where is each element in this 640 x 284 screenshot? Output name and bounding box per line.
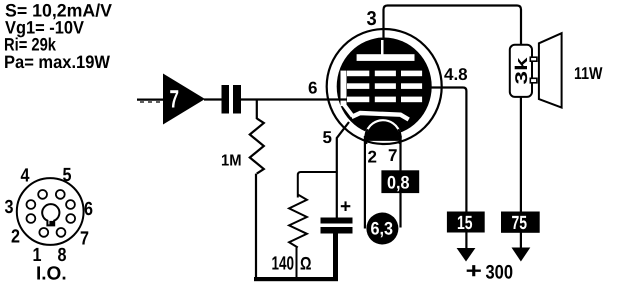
svg-text:7: 7 xyxy=(170,86,180,114)
svg-text:+: + xyxy=(340,197,351,218)
socket pin hole 3 xyxy=(27,200,36,209)
arrow under 15 to +300 xyxy=(457,248,476,262)
svg-text:2: 2 xyxy=(368,148,377,167)
svg-text:7: 7 xyxy=(80,229,89,250)
cathode white connection diagonal xyxy=(344,104,353,116)
anode lead white stub above plate xyxy=(381,40,384,55)
svg-text:1M: 1M xyxy=(221,153,242,170)
svg-text:+: + xyxy=(466,258,483,283)
cathode bypass capacitor plates xyxy=(321,218,353,224)
wire triangle to coupling capacitor xyxy=(204,98,222,100)
svg-text:140: 140 xyxy=(272,254,295,275)
wire 140 ohm to rail xyxy=(296,248,298,279)
speaker tab lower xyxy=(530,78,537,83)
svg-text:4.8: 4.8 xyxy=(444,65,468,84)
capacitor thick bottom lead xyxy=(333,234,338,279)
svg-text:3k: 3k xyxy=(512,57,531,85)
output transformer 3k box xyxy=(510,45,532,97)
cathode bar (white) xyxy=(352,113,409,120)
svg-text:3: 3 xyxy=(5,197,14,218)
resistor 140 ohm zigzag xyxy=(289,195,307,248)
socket pin hole 8 xyxy=(57,228,66,237)
svg-text:3: 3 xyxy=(367,8,377,30)
wire capacitor to grid pin 6 xyxy=(241,98,330,100)
socket center keyhole xyxy=(42,204,59,225)
svg-text:I.O.: I.O. xyxy=(36,264,67,284)
svg-text:Pa= max.19W: Pa= max.19W xyxy=(4,52,110,72)
svg-text:Ω: Ω xyxy=(300,253,312,273)
heater supply bubble 6,3 xyxy=(366,213,398,245)
svg-text:0,8: 0,8 xyxy=(387,173,410,193)
heater wire pin 2 down xyxy=(364,136,366,229)
socket outline circle xyxy=(17,178,84,245)
tube envelope circle V1 xyxy=(327,29,442,144)
heater arc black end stubs xyxy=(365,129,367,144)
voltage box 75 xyxy=(501,212,540,233)
svg-text:15: 15 xyxy=(457,213,473,234)
grid g3 dashes row 1 xyxy=(347,71,369,77)
grid g2 dashes row 2 xyxy=(347,83,369,89)
heater black half-disc xyxy=(365,120,400,141)
tube internal black blob xyxy=(337,38,432,136)
wire junction down to 1M resistor xyxy=(256,100,258,120)
grid g1 dashes row 3 xyxy=(347,97,369,103)
socket pin hole 1 xyxy=(39,228,48,237)
svg-text:7: 7 xyxy=(388,146,397,165)
speaker tab upper xyxy=(530,57,537,61)
svg-text:6,3: 6,3 xyxy=(371,219,394,239)
svg-text:5: 5 xyxy=(323,128,332,147)
socket pin hole 5 xyxy=(56,190,65,199)
cathode wire pin 5 diagonal and down xyxy=(337,122,349,218)
socket pin hole 7 xyxy=(66,214,75,223)
screen g2 wire right and down to 15 box xyxy=(430,88,466,249)
anode wire pin 3 up and right to output transformer xyxy=(384,6,522,46)
wire cathode junction to 140 ohm resistor xyxy=(298,172,337,198)
svg-text:6: 6 xyxy=(308,79,317,98)
svg-text:6: 6 xyxy=(84,199,93,220)
svg-text:5: 5 xyxy=(63,165,72,186)
input transducer triangle (pin 7) xyxy=(163,74,205,125)
voltage box 0,8 xyxy=(381,170,419,193)
anode plate (white bar) xyxy=(357,54,415,61)
ground rail (thick) xyxy=(254,277,338,281)
socket key slot dot xyxy=(49,221,53,225)
heater wire pin 7 down xyxy=(399,136,401,228)
socket pin hole 4 xyxy=(38,190,47,199)
svg-text:75: 75 xyxy=(512,213,528,234)
svg-text:300: 300 xyxy=(486,262,514,284)
input wire (dashed stub) xyxy=(137,98,163,100)
wire 1M resistor to ground rail xyxy=(255,174,257,278)
wire transformer bottom to 75 arrow xyxy=(520,97,522,248)
socket pin hole 6 xyxy=(66,200,75,209)
g3-cathode white strip xyxy=(341,71,347,107)
grid wire over ring into blob xyxy=(328,98,347,100)
arrow under 75 to +300 xyxy=(512,248,531,262)
socket pin hole 2 xyxy=(27,214,36,223)
svg-text:2: 2 xyxy=(11,227,20,248)
coupling capacitor C1 xyxy=(222,85,230,114)
svg-text:11W: 11W xyxy=(574,64,603,83)
voltage box 15 xyxy=(447,212,485,233)
speaker cone xyxy=(539,33,562,107)
resistor 1M zigzag xyxy=(250,118,264,173)
svg-text:4: 4 xyxy=(21,166,30,187)
heater arc (white) xyxy=(366,120,399,132)
